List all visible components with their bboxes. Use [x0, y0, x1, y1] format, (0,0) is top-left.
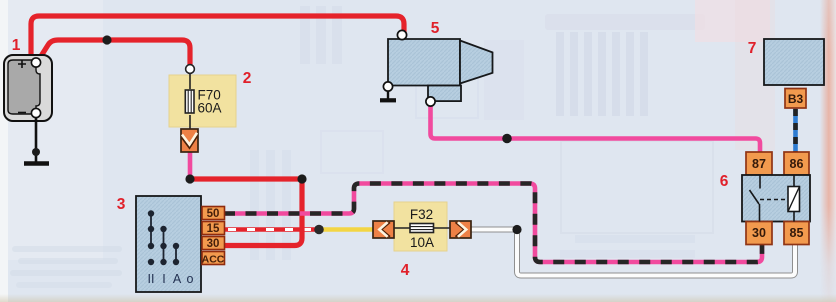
svg-text:30: 30 — [752, 226, 766, 240]
svg-text:86: 86 — [790, 157, 804, 171]
svg-text:7: 7 — [748, 40, 757, 57]
svg-text:1: 1 — [12, 37, 21, 54]
svg-text:85: 85 — [790, 226, 804, 240]
svg-text:30: 30 — [207, 238, 220, 250]
svg-text:60A: 60A — [198, 101, 222, 116]
svg-text:2: 2 — [243, 70, 252, 87]
svg-text:87: 87 — [752, 157, 766, 171]
svg-text:10A: 10A — [410, 235, 434, 250]
svg-text:II: II — [148, 272, 155, 286]
svg-text:ACC: ACC — [202, 254, 225, 266]
svg-text:o: o — [187, 272, 194, 286]
svg-text:6: 6 — [720, 173, 729, 190]
svg-text:5: 5 — [431, 20, 440, 37]
svg-text:3: 3 — [117, 196, 126, 213]
svg-text:F32: F32 — [410, 207, 433, 222]
svg-text:4: 4 — [401, 262, 410, 279]
svg-text:A: A — [173, 272, 182, 286]
svg-text:50: 50 — [207, 208, 220, 220]
svg-text:15: 15 — [207, 223, 220, 235]
svg-text:I: I — [162, 272, 165, 286]
svg-text:B3: B3 — [788, 92, 804, 106]
